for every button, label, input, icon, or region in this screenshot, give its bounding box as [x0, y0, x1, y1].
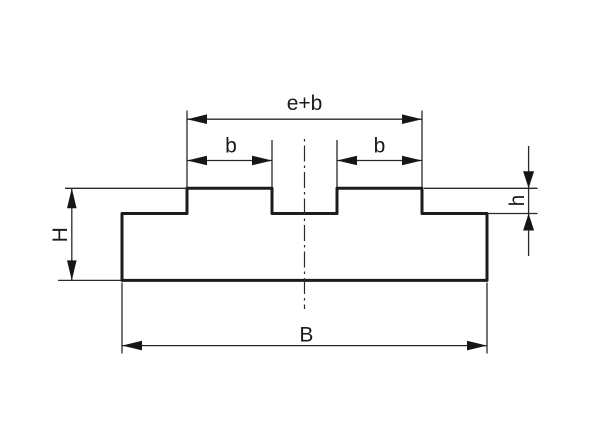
svg-text:H: H: [49, 227, 72, 242]
svg-text:b: b: [225, 134, 237, 157]
svg-text:h: h: [506, 195, 529, 207]
svg-text:e+b: e+b: [287, 92, 323, 115]
svg-text:b: b: [374, 134, 386, 157]
svg-text:B: B: [299, 324, 313, 347]
